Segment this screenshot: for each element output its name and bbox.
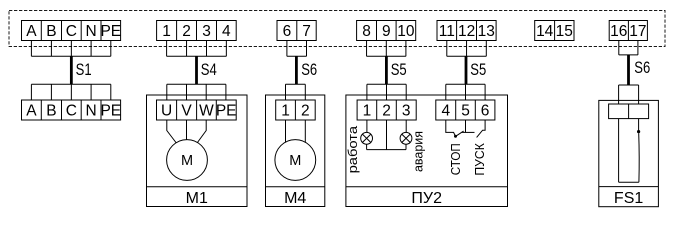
svg-text:S1: S1 xyxy=(76,61,92,79)
wire 1 to motor M4 xyxy=(285,120,287,145)
wire comb under block ABCNPE xyxy=(31,41,110,57)
float switch blade xyxy=(638,133,641,182)
svg-text:3: 3 xyxy=(402,103,411,120)
terminal block A B C N PE (cabinet) xyxy=(22,21,122,41)
wire lamp common bus xyxy=(367,149,406,151)
svg-text:работа: работа xyxy=(346,126,360,174)
svg-text:6: 6 xyxy=(283,23,292,40)
svg-text:2: 2 xyxy=(301,103,310,120)
terminal strip U V W PE of M1 xyxy=(157,100,237,120)
indicator lamp HL1 (rabota) xyxy=(361,132,373,144)
cable S1 xyxy=(70,56,73,84)
svg-text:S6: S6 xyxy=(634,59,650,77)
svg-text:B: B xyxy=(46,23,56,40)
wire 2 to motor M4 xyxy=(304,120,306,145)
device box M1 xyxy=(147,95,248,207)
svg-text:3: 3 xyxy=(202,23,211,40)
wire comb under block 16-17 xyxy=(619,41,638,55)
svg-text:M1: M1 xyxy=(186,190,208,207)
svg-text:PE: PE xyxy=(216,103,237,120)
svg-text:СТОП: СТОП xyxy=(449,143,463,175)
wire comb above M4 terminals xyxy=(286,84,306,100)
svg-text:14: 14 xyxy=(536,23,554,40)
svg-text:M4: M4 xyxy=(284,190,306,207)
cable S5 to PU2 buttons xyxy=(465,56,468,84)
svg-text:9: 9 xyxy=(382,23,391,40)
svg-text:1: 1 xyxy=(162,23,171,40)
svg-text:11: 11 xyxy=(439,23,455,40)
svg-text:5: 5 xyxy=(461,103,470,120)
wire comb above FS1 terminals xyxy=(619,85,639,104)
label separator PU2 xyxy=(346,186,508,188)
svg-text:N: N xyxy=(85,103,96,120)
svg-text:W: W xyxy=(199,103,214,120)
wire terminal 3 to lamp xyxy=(405,120,407,132)
wire STOP contact to terminal 5 xyxy=(462,120,466,132)
svg-text:8: 8 xyxy=(362,23,371,40)
svg-text:1: 1 xyxy=(281,103,290,120)
svg-text:M: M xyxy=(181,153,193,169)
wire lamp HL1 return xyxy=(366,144,368,149)
float switch tube bottom xyxy=(619,181,639,183)
wire W to motor xyxy=(195,120,207,147)
label separator M1 xyxy=(147,186,248,188)
svg-text:12: 12 xyxy=(458,23,475,40)
terminal block 6 7 (cabinet) xyxy=(277,21,316,41)
svg-text:2: 2 xyxy=(182,23,191,40)
svg-text:A: A xyxy=(26,23,37,40)
svg-text:7: 7 xyxy=(302,23,311,40)
terminal strip 1 2 3 of PU2 xyxy=(357,100,416,120)
svg-text:C: C xyxy=(66,23,77,40)
svg-text:U: U xyxy=(161,103,172,120)
svg-text:S4: S4 xyxy=(201,61,217,79)
svg-text:1: 1 xyxy=(363,103,372,120)
svg-text:S5: S5 xyxy=(391,61,407,79)
wire comb under block 6-7 xyxy=(287,41,307,57)
svg-text:V: V xyxy=(181,103,192,120)
label separator FS1 xyxy=(599,186,659,188)
terminal strip 1 2 of M4 xyxy=(276,100,316,120)
cable S6 to M4 xyxy=(295,56,298,84)
svg-text:PE: PE xyxy=(100,103,121,120)
float switch tube left wire xyxy=(618,119,620,183)
svg-text:17: 17 xyxy=(629,23,646,40)
wire V to motor xyxy=(186,120,188,145)
label separator M4 xyxy=(266,186,325,188)
float contact dot xyxy=(637,130,640,133)
contact dot STOP xyxy=(454,135,457,138)
wire comb under block 11-13 xyxy=(447,41,487,57)
terminal block 11 12 13 (cabinet) xyxy=(437,21,496,41)
terminal strip 4 5 6 of PU2 xyxy=(436,100,495,120)
wire comb above field block ABCNPE xyxy=(31,84,110,100)
svg-text:4: 4 xyxy=(222,23,231,40)
svg-text:FS1: FS1 xyxy=(614,190,643,207)
svg-text:авария: авария xyxy=(412,131,426,172)
svg-text:M: M xyxy=(289,153,301,169)
device box PU2 xyxy=(346,95,508,207)
svg-text:ПУ2: ПУ2 xyxy=(411,190,442,207)
svg-text:13: 13 xyxy=(478,23,495,40)
wire U to motor xyxy=(167,120,179,147)
terminal block 8 9 10 (cabinet) xyxy=(357,21,416,41)
control cabinet boundary (dashed) xyxy=(9,11,665,47)
svg-text:ПУСК: ПУСК xyxy=(473,142,487,175)
svg-text:PE: PE xyxy=(100,23,121,40)
cable S5 to PU2 lamps xyxy=(385,56,388,84)
START button blade (NO) xyxy=(477,120,486,137)
terminal block 16 17 (cabinet) xyxy=(609,21,647,41)
cable S6 to FS1 xyxy=(627,55,630,85)
svg-text:6: 6 xyxy=(481,103,490,120)
wire comb above PU2 terminals 4-6 xyxy=(446,84,485,100)
wire terminal 2 to lamp bus xyxy=(386,120,388,150)
svg-text:A: A xyxy=(26,103,37,120)
svg-text:S6: S6 xyxy=(301,61,317,79)
wire comb above M1 terminals xyxy=(167,84,226,100)
wire terminal 1 to lamp xyxy=(366,120,368,132)
field terminal block A B C N PE xyxy=(22,100,122,120)
svg-text:16: 16 xyxy=(610,23,627,40)
STOP button blade (NC) xyxy=(455,131,463,136)
svg-text:4: 4 xyxy=(441,103,450,120)
wire comb under block 8-10 xyxy=(367,41,406,57)
svg-text:N: N xyxy=(85,23,96,40)
svg-text:C: C xyxy=(66,103,77,120)
wire lamp HL2 return xyxy=(405,144,407,149)
float switch wire to contact xyxy=(638,119,640,132)
svg-text:10: 10 xyxy=(397,23,415,40)
wire terminal 4 to STOP contact xyxy=(446,120,456,136)
svg-text:2: 2 xyxy=(382,103,391,120)
svg-text:15: 15 xyxy=(556,23,573,40)
wire comb above PU2 terminals 1-3 xyxy=(367,84,406,100)
terminal cells of FS1 xyxy=(609,104,649,119)
device box M4 xyxy=(266,95,325,207)
cable S4 xyxy=(195,56,198,84)
device box FS1 xyxy=(599,100,659,206)
terminal block 14 15 (cabinet) xyxy=(535,21,574,41)
indicator lamp HL2 (avaria) xyxy=(400,132,412,144)
terminal block 1 2 3 4 (cabinet) xyxy=(157,21,237,41)
motor symbol M4 xyxy=(275,140,316,181)
svg-text:B: B xyxy=(46,103,56,120)
svg-text:S5: S5 xyxy=(470,61,486,79)
wire terminal 5 to START contact xyxy=(466,131,475,133)
wire comb under block 1-4 xyxy=(167,41,227,57)
motor symbol M1 xyxy=(167,140,208,181)
